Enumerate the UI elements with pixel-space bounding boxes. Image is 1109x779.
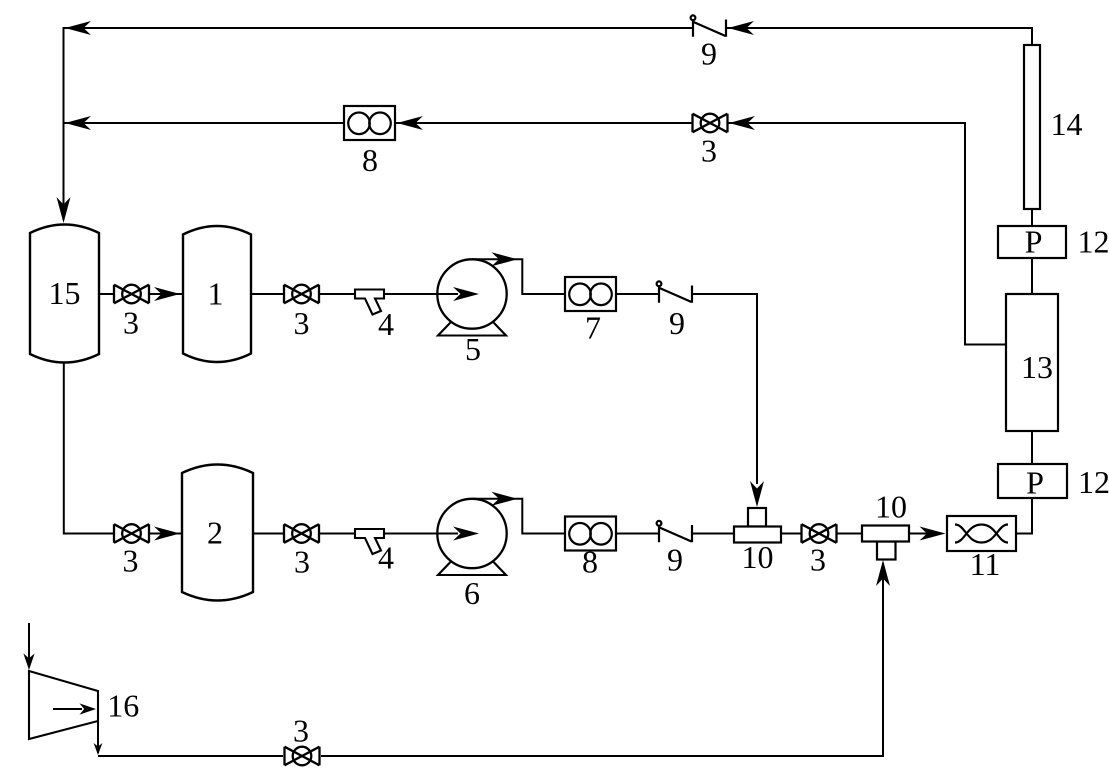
svg-text:15: 15 <box>49 275 81 311</box>
svg-text:16: 16 <box>107 688 139 724</box>
svg-text:13: 13 <box>1021 349 1053 385</box>
svg-text:5: 5 <box>465 331 481 367</box>
svg-text:P: P <box>1025 224 1043 260</box>
svg-text:9: 9 <box>701 36 717 72</box>
svg-text:2: 2 <box>207 515 223 551</box>
svg-text:6: 6 <box>464 575 480 611</box>
svg-text:3: 3 <box>293 713 309 749</box>
svg-text:11: 11 <box>970 546 1001 582</box>
svg-text:12: 12 <box>1078 464 1109 500</box>
svg-text:3: 3 <box>294 544 310 580</box>
svg-text:3: 3 <box>701 132 717 168</box>
svg-text:12: 12 <box>1078 224 1109 260</box>
svg-text:1: 1 <box>208 275 224 311</box>
svg-text:14: 14 <box>1051 106 1083 142</box>
svg-text:8: 8 <box>362 142 378 178</box>
svg-text:9: 9 <box>667 541 683 577</box>
svg-text:4: 4 <box>378 306 394 342</box>
svg-text:4: 4 <box>378 540 394 576</box>
svg-text:7: 7 <box>585 310 601 346</box>
svg-text:3: 3 <box>123 305 139 341</box>
svg-text:3: 3 <box>123 543 139 579</box>
svg-text:P: P <box>1026 465 1044 501</box>
svg-text:10: 10 <box>875 489 907 525</box>
svg-text:8: 8 <box>582 543 598 579</box>
svg-text:3: 3 <box>294 305 310 341</box>
svg-text:10: 10 <box>742 539 774 575</box>
svg-text:3: 3 <box>810 542 826 578</box>
svg-text:9: 9 <box>669 305 685 341</box>
